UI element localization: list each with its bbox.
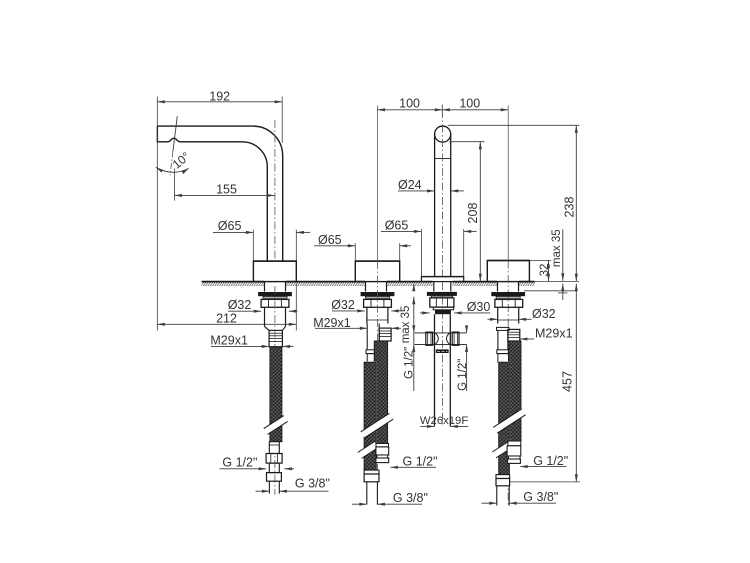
- label dia24: [398, 178, 422, 192]
- dim dia65 unit3 lines: [381, 229, 477, 276]
- unit2 rear hose G1/2 connector: [376, 444, 389, 463]
- dim dia30 line: [420, 311, 490, 314]
- unit1 washer: [258, 292, 292, 298]
- label M29x1 unit2: [313, 316, 351, 330]
- dim 32 lines: [530, 260, 580, 281]
- unit3 side ports G1/2: [415, 332, 467, 345]
- label max35 unit4: [551, 229, 563, 267]
- unit4 front hose adapter: [496, 475, 510, 486]
- spout base escutcheon: [253, 261, 296, 282]
- dim dia32 unit1: [228, 310, 298, 313]
- svg-text:G 1/2": G 1/2": [457, 359, 469, 391]
- dim G3/8 unit1: [256, 490, 329, 493]
- unit2 washer: [361, 292, 395, 298]
- dim 100-100 line: [378, 105, 509, 117]
- unit4 shank below deck: [498, 282, 519, 292]
- joystick centerline: [441, 110, 443, 427]
- unit1 M29x1 connector: [269, 330, 282, 346]
- dim 238 lines: [448, 125, 580, 281]
- unit2 front hose braid: [364, 362, 376, 470]
- unit2 G3/8 tube: [367, 482, 378, 505]
- dim M29x1 unit4: [520, 337, 534, 340]
- label G1/2 unit2: [403, 455, 438, 469]
- dim 457 lines: [510, 284, 580, 482]
- unit1 outlet tube: [265, 307, 286, 330]
- unit3 washer: [427, 292, 457, 298]
- unit3 base plate: [421, 277, 463, 282]
- dim G1/2 unit2: [390, 466, 436, 469]
- countertop deck line with hatching: [202, 282, 535, 286]
- svg-text:G 3/8": G 3/8": [295, 477, 330, 491]
- svg-text:G 1/2": G 1/2": [403, 455, 438, 469]
- unit2 centerline: [376, 261, 378, 506]
- label dia32 unit2: [331, 298, 355, 312]
- unit2 front hose adapter: [364, 470, 379, 482]
- unit4 front hose break symbol: [492, 441, 513, 458]
- dim G1/2 right column: [465, 325, 468, 391]
- unit2 centerline ext: [376, 106, 378, 262]
- unit2 locknut: [364, 299, 392, 307]
- svg-text:192: 192: [209, 89, 230, 103]
- label G1/2 unit3 right: [457, 359, 469, 391]
- unit3 locknut: [430, 298, 454, 307]
- aerator axis tilted 10 deg: [170, 116, 177, 175]
- label M29x1 unit1: [210, 333, 248, 347]
- label max35 unit3: [400, 306, 412, 344]
- dim G3/8 unit2: [352, 503, 422, 506]
- unit4 supply tube left: [497, 327, 510, 362]
- svg-text:208: 208: [466, 203, 480, 224]
- dim dia32 unit4: [488, 318, 532, 321]
- dim max35 unit4 lines: [558, 229, 568, 300]
- unit4 outlet tube: [498, 307, 519, 323]
- joystick lever and column: [435, 126, 451, 276]
- dim 192 lines: [157, 97, 282, 331]
- label dia30: [467, 300, 491, 314]
- unit4 locknut: [495, 299, 523, 307]
- unit4 rear hose braid: [509, 341, 521, 441]
- svg-text:G 1/2": G 1/2": [403, 347, 415, 379]
- label 192: [209, 89, 230, 103]
- unit1 centerline: [274, 286, 276, 495]
- unit1 G1/2 end connector: [266, 442, 282, 482]
- svg-text:Ø30: Ø30: [467, 300, 491, 314]
- svg-text:G 3/8": G 3/8": [523, 490, 558, 504]
- dim M29x1 unit2: [315, 327, 401, 330]
- unit4 base escutcheon: [487, 261, 529, 282]
- unit4 rear hose G1/2 connector: [507, 441, 521, 463]
- dim G1/2 unit1: [220, 467, 295, 470]
- angle arc 10 deg: [155, 166, 189, 174]
- dim G3/8 unit4: [482, 502, 557, 505]
- label G1/2 unit3 left: [403, 347, 415, 379]
- svg-text:457: 457: [561, 371, 575, 392]
- unit1 locknut: [261, 299, 289, 307]
- label 155: [216, 183, 237, 197]
- label 100 right: [459, 97, 480, 111]
- svg-text:Ø65: Ø65: [385, 218, 409, 232]
- label dia32 unit1: [228, 298, 252, 312]
- dim 212 lines: [157, 284, 296, 331]
- unit3 shank below deck: [434, 282, 451, 292]
- svg-text:M29x1: M29x1: [210, 333, 248, 347]
- label 457: [561, 371, 575, 392]
- svg-text:Ø32: Ø32: [532, 307, 556, 321]
- dim M29x1 unit1: [211, 345, 294, 348]
- svg-text:G 3/8": G 3/8": [393, 491, 428, 505]
- dim G1/2 unit4: [520, 465, 566, 468]
- svg-text:Ø65: Ø65: [318, 233, 342, 247]
- label 10deg: [170, 149, 193, 172]
- unit2 outlet tube: [367, 307, 388, 323]
- svg-text:max 35: max 35: [400, 306, 412, 344]
- label G1/2 unit1: [222, 455, 257, 469]
- dim dia65 unit1 lines: [213, 230, 310, 261]
- svg-text:W26x19F: W26x19F: [420, 415, 468, 427]
- unit4 M29x1 connector right: [508, 329, 520, 341]
- unit2 rear hose braid: [374, 341, 387, 444]
- label 212: [216, 311, 237, 325]
- svg-text:212: 212: [216, 311, 237, 325]
- label dia65 unit3: [385, 218, 409, 232]
- svg-text:100: 100: [399, 97, 420, 111]
- svg-text:Ø32: Ø32: [228, 298, 252, 312]
- unit2 shank below deck: [366, 282, 387, 292]
- label 208: [466, 203, 480, 224]
- unit2 front hose break symbol: [358, 442, 379, 459]
- dim dia32 unit2: [332, 309, 402, 312]
- svg-text:G 1/2": G 1/2": [533, 454, 568, 468]
- svg-text:Ø32: Ø32: [331, 298, 355, 312]
- svg-text:155: 155: [216, 183, 237, 197]
- label 100 left: [399, 97, 420, 111]
- svg-text:32: 32: [539, 264, 551, 277]
- label M29x1 unit4: [535, 327, 573, 341]
- unit2 supply tube left: [366, 324, 380, 363]
- unit4 centerline: [507, 261, 509, 508]
- spout U1 outline (L-shaped): [157, 126, 282, 261]
- dim dia65 unit2 lines: [314, 243, 411, 260]
- label dia32 unit4: [532, 307, 556, 321]
- dim dia24 lines: [398, 189, 464, 192]
- unit1 hose break symbol: [264, 416, 288, 435]
- spout centerline: [274, 120, 276, 261]
- label G1/2 unit4: [533, 454, 568, 468]
- unit4 front hose braid: [499, 362, 510, 474]
- unit3 valve body: [435, 314, 451, 426]
- unit4 hoses break symbol: [493, 409, 525, 433]
- svg-text:max 35: max 35: [551, 229, 563, 267]
- label W26x19F: [420, 415, 468, 427]
- dim 155 lines: [174, 169, 275, 201]
- label 32: [539, 264, 551, 277]
- dim max35 and G1/2 left column: [412, 284, 415, 391]
- label 238: [563, 197, 577, 218]
- unit4 centerline ext: [507, 106, 509, 261]
- unit3 cartridge stop bar: [436, 349, 449, 353]
- dim 208 lines: [449, 142, 484, 282]
- unit2 base escutcheon: [355, 261, 399, 282]
- svg-text:Ø65: Ø65: [218, 219, 242, 233]
- label dia65 unit2: [318, 233, 342, 247]
- label G3/8 unit1: [295, 477, 330, 491]
- label dia65 unit1: [218, 219, 242, 233]
- unit1 flexible hose braid: [270, 347, 282, 442]
- svg-text:Ø24: Ø24: [398, 178, 422, 192]
- svg-text:238: 238: [563, 197, 577, 218]
- dim W26x19F line: [420, 425, 468, 428]
- unit2 M29x1 connector right: [379, 328, 391, 341]
- label G3/8 unit2: [393, 491, 428, 505]
- svg-text:100: 100: [459, 97, 480, 111]
- label G3/8 unit4: [523, 490, 558, 504]
- svg-text:G 1/2": G 1/2": [222, 455, 257, 469]
- svg-text:M29x1: M29x1: [535, 327, 573, 341]
- unit1 shank below deck: [265, 282, 286, 292]
- svg-text:M29x1: M29x1: [313, 316, 351, 330]
- unit4 G3/8 tube: [497, 486, 509, 506]
- unit1 G3/8 tube: [269, 481, 279, 493]
- unit3 collar rings: [433, 307, 453, 314]
- unit4 washer: [491, 292, 525, 298]
- unit2 hoses break symbol: [361, 413, 393, 437]
